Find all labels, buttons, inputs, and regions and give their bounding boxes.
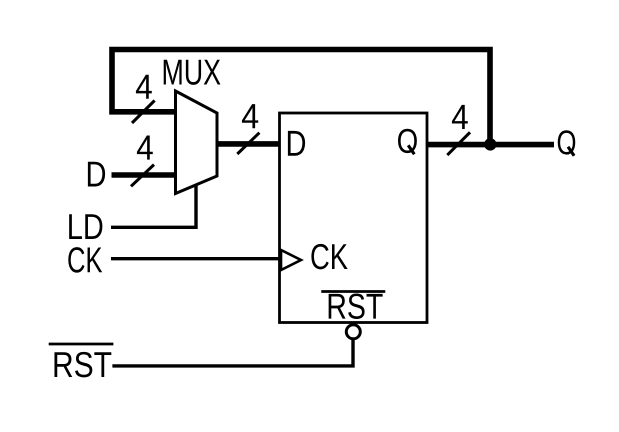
overline for register RST [321, 290, 385, 293]
reset bubble (active-low) [346, 325, 360, 339]
junction node on Q bus [484, 138, 496, 150]
wire: RST input to bubble [112, 340, 353, 366]
wire: Q output bus from register to node (thick) [428, 142, 554, 148]
label MUX [164, 60, 221, 85]
bus-width slash on D input [131, 165, 154, 187]
wire: LD select into mux bottom [111, 185, 196, 227]
pin label D (register) [288, 131, 305, 156]
wire: CK clock input [111, 257, 279, 260]
value label 4 (mux top input) [136, 75, 152, 99]
label LD [69, 214, 102, 239]
clock triangle on register [281, 250, 301, 270]
mux U1 body [176, 91, 218, 194]
label CK (external) [68, 247, 102, 272]
wire: feedback bus from Q back to MUX top input (thick) [112, 50, 490, 145]
bus-width slash on Q output [447, 132, 470, 155]
pin label Q (register) [398, 129, 417, 153]
wire: D input bus into MUX (thick) [112, 172, 177, 178]
overline for external RST [49, 343, 114, 346]
value label 4 (D input) [137, 136, 153, 160]
pin label RST (register, active low) [329, 293, 383, 318]
bus-width slash on mux top input [132, 101, 155, 124]
label RST (external, active low) [54, 352, 111, 377]
bus-width slash on mux output [237, 133, 259, 154]
register (D flip-flop) box [280, 113, 428, 323]
label D (external data input) [88, 162, 105, 187]
pin label CK (register) [311, 244, 347, 269]
value label 4 (Q output) [452, 105, 468, 129]
value label 4 (mux output) [242, 104, 258, 128]
label Q (external output) [558, 130, 576, 154]
wire: MUX output bus to register D (thick) [216, 141, 281, 147]
